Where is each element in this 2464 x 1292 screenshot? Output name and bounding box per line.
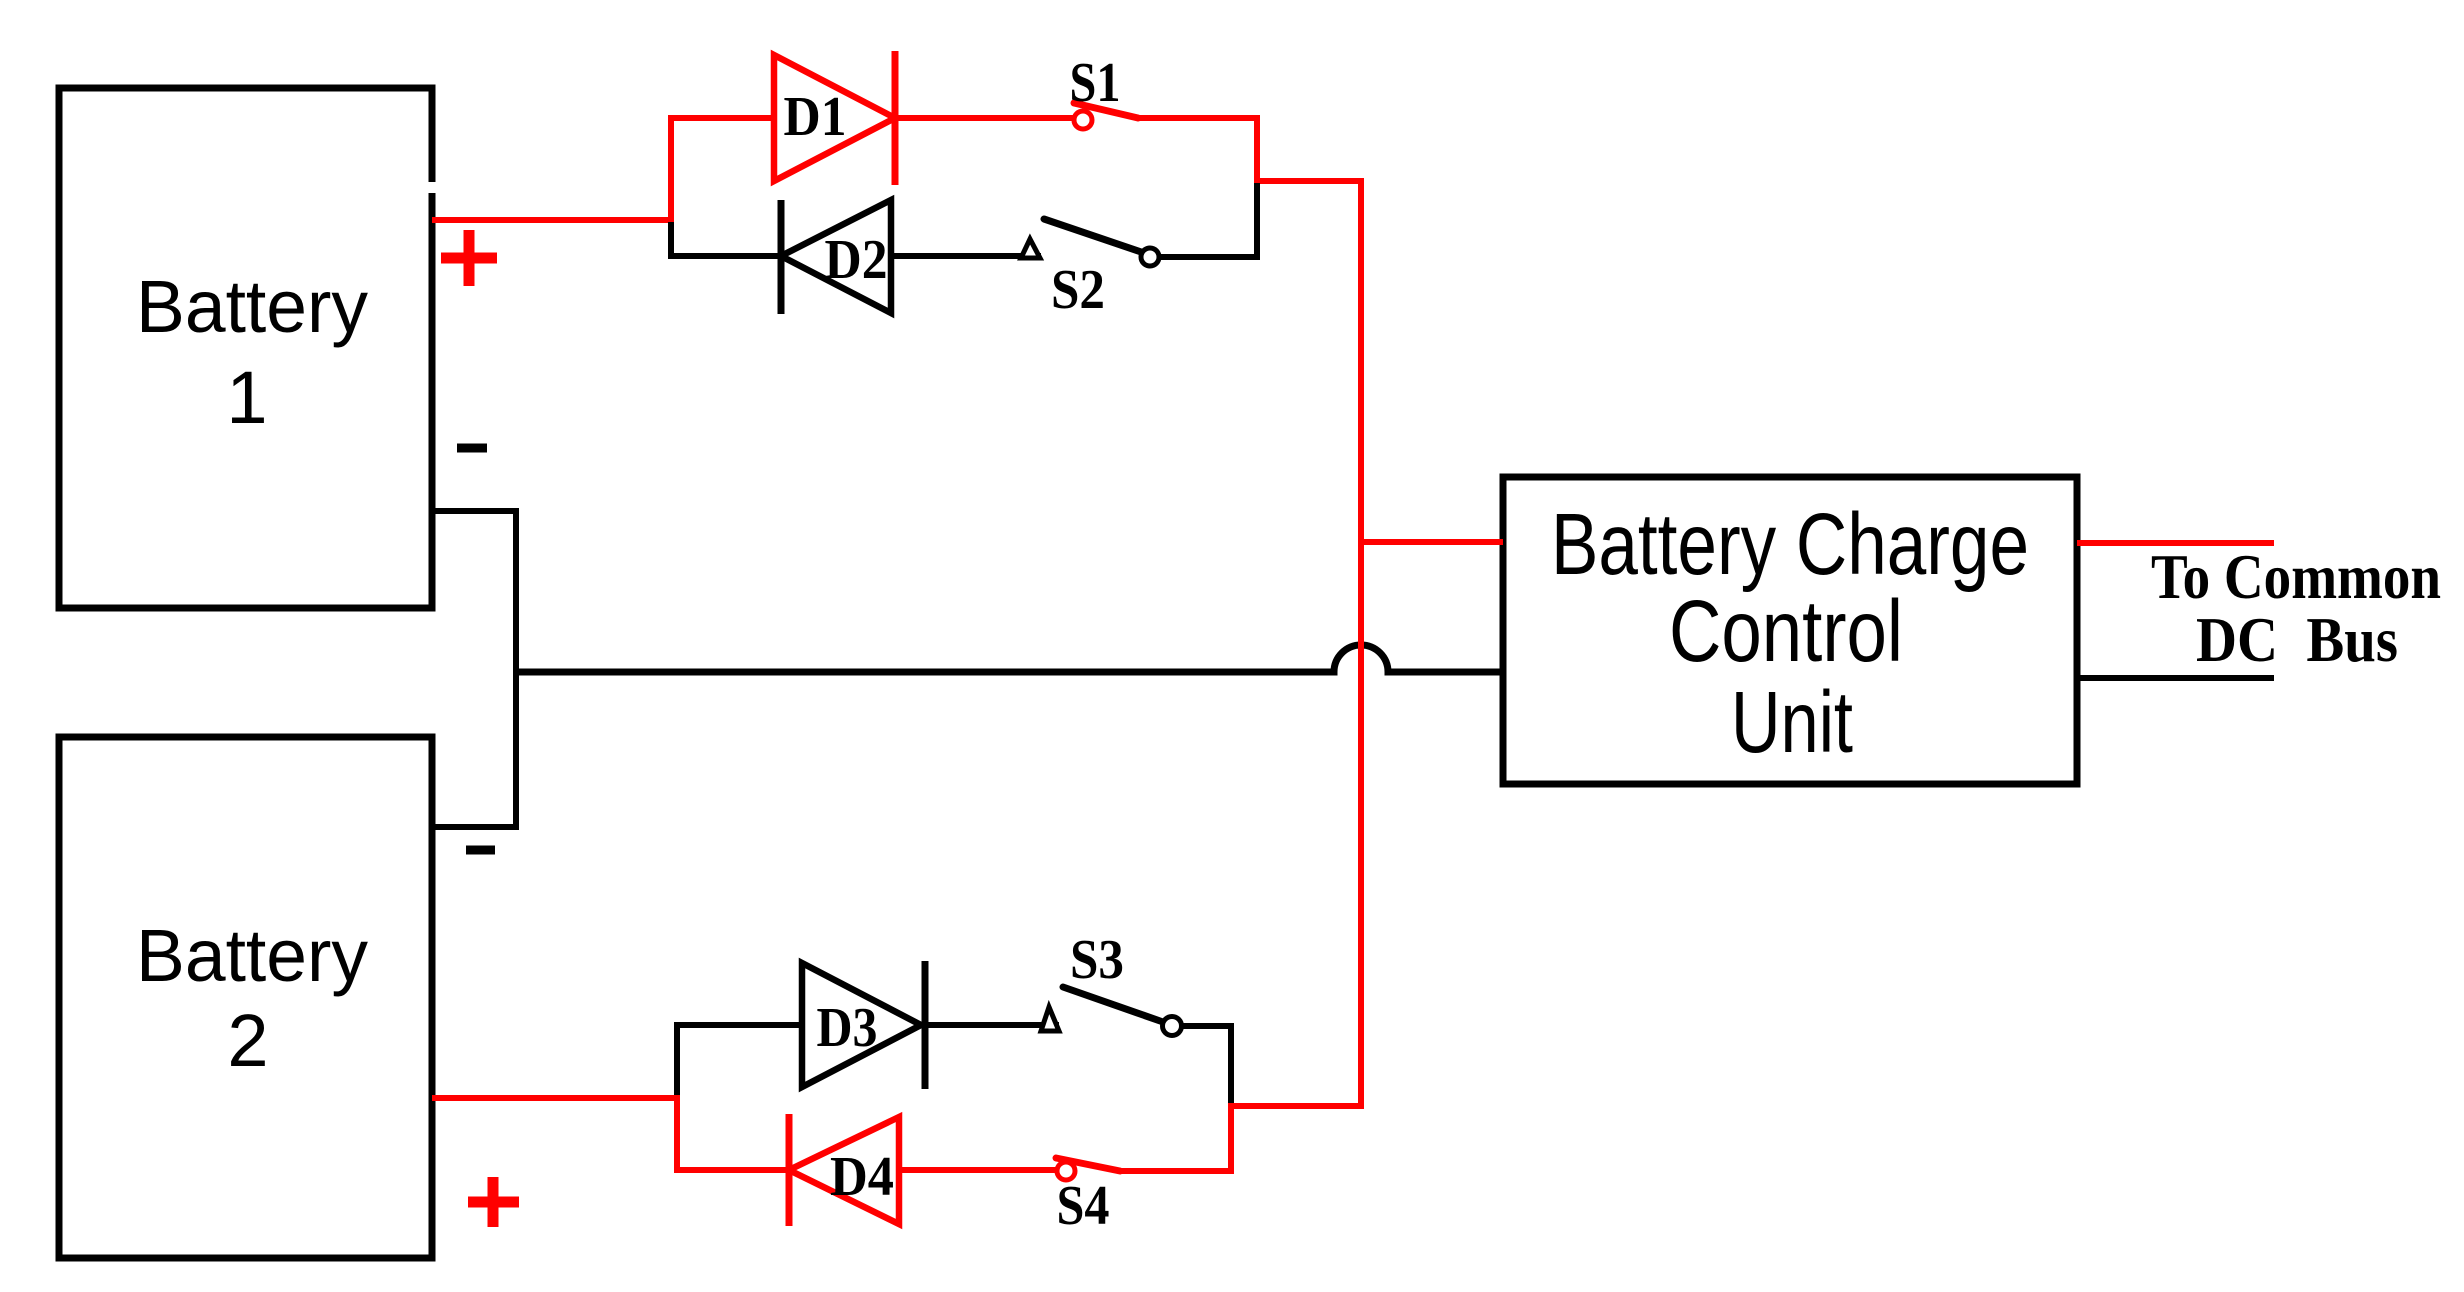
wire control unit output black [2077,675,2274,681]
switch S3 [1041,987,1182,1036]
svg-text:Unit: Unit [1731,674,1853,771]
wire corner up red S4 [1228,1103,1234,1171]
switch S2 [1021,219,1159,266]
diode D3 [802,961,925,1089]
wire to D2 cathode [668,253,781,259]
plus terminal battery 1 [441,230,497,286]
battery charge control unit label [1551,496,2029,771]
svg-text:S2: S2 [1051,259,1105,321]
plus terminal battery 2 [468,1177,519,1227]
label To Common DC Bus [2151,542,2441,675]
wire positive bus vertical red [1358,180,1364,1109]
diode D4 [789,1114,899,1226]
wire node B riser black [674,1022,680,1098]
svg-text:D1: D1 [784,86,847,148]
wire S2 to corner [1159,254,1260,260]
wire battery1 minus stub [432,511,516,827]
wire D2 anode to S2 [891,253,1041,259]
wire node A riser red [668,115,674,222]
svg-text:2: 2 [227,999,268,1082]
svg-text:S1: S1 [1070,52,1121,114]
switch S4 [1056,1158,1120,1180]
wire D4 anode to S4 [899,1167,1057,1173]
battery 2 box [59,737,432,1258]
minus terminal battery 1 [457,444,487,453]
battery 1 label [136,265,368,439]
wire node A drop black [668,222,674,259]
wire control unit output red [2077,540,2274,546]
wire corner down red [1254,118,1260,184]
svg-text:Control: Control [1669,583,1903,680]
wire S3 to corner [1181,1023,1234,1029]
wire node B drop red [674,1095,680,1173]
switch S1 [1074,103,1138,129]
svg-text:1: 1 [226,356,267,439]
diode D1 [774,51,895,185]
svg-text:D2: D2 [825,229,888,291]
svg-text:Battery: Battery [136,265,368,348]
svg-text:DC Bus: DC Bus [2196,605,2398,675]
wire to D3 anode [674,1022,804,1028]
svg-text:Battery Charge: Battery Charge [1551,496,2029,593]
wire to D4 cathode [674,1167,789,1173]
svg-text:D4: D4 [830,1146,894,1208]
wire D1 cathode to S1 [895,115,1074,121]
wire corner up black [1254,183,1260,257]
wire negative bus with hop [516,645,1503,672]
svg-text:S4: S4 [1057,1175,1110,1237]
wire bus to control unit red [1361,539,1503,545]
svg-text:To Common: To Common [2151,542,2441,612]
wire battery1 plus stub (red) [432,217,671,223]
wire to D1 anode [668,115,776,121]
wire S4 to corner [1120,1168,1234,1174]
wire corner down black S3 [1228,1026,1234,1106]
svg-text:S3: S3 [1070,929,1124,991]
minus terminal battery 2 [466,846,495,855]
battery 1 box [59,88,438,608]
wire block output to bus red [1228,1103,1364,1109]
svg-text:D3: D3 [817,997,878,1059]
battery 2 label [136,914,368,1082]
battery charge control unit box U1 [1503,477,2077,784]
wire D3 cathode to S3 [925,1022,1059,1028]
wire corner to bus red [1254,178,1364,184]
wire S1 to corner [1138,115,1260,121]
diode D2 [781,200,891,314]
wire battery2 plus stub (red) [432,1095,677,1101]
svg-text:Battery: Battery [136,914,368,997]
